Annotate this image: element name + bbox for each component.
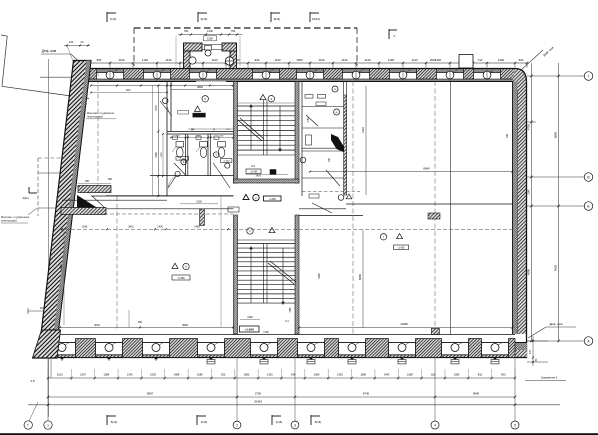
svg-text:3860: 3860	[197, 85, 203, 89]
bottom-left room tag	[172, 263, 178, 268]
svg-text:1140: 1140	[411, 58, 417, 62]
svg-text:+1.650: +1.650	[244, 328, 254, 332]
svg-text:Г: Г	[27, 423, 29, 427]
top wall inner liner strip	[86, 79, 515, 82]
interior bearing wall x343.7-346.6	[344, 95, 347, 195]
svg-text:Деф. шов: Деф. шов	[549, 322, 562, 326]
section flag 7(13)	[106, 12, 108, 22]
svg-text:Деф. шов: Деф. шов	[42, 49, 57, 53]
top dimension line	[88, 62, 527, 64]
svg-text:+1.450: +1.450	[223, 161, 231, 163]
top-right room dim 8940	[310, 171, 513, 173]
svg-text:5(12): 5(12)	[111, 420, 118, 424]
svg-text:1140: 1140	[528, 189, 531, 195]
svg-text:1330: 1330	[337, 373, 343, 377]
svg-text:1029: 1029	[150, 373, 156, 377]
top stair dim marks	[238, 102, 296, 104]
right grid horizontals to bubbles	[527, 75, 584, 77]
svg-text:Монтажн. 1 (царапина: Монтажн. 1 (царапина	[87, 111, 114, 115]
svg-text:1089: 1089	[103, 373, 109, 377]
grid dashed vertical x435	[434, 81, 436, 334]
right column partition walls	[301, 82, 303, 197]
svg-text:-1.450: -1.450	[269, 198, 277, 201]
svg-text:1270: 1270	[155, 105, 158, 111]
right dim line 1	[531, 63, 533, 341]
section flag 6(13)	[197, 12, 199, 22]
corridor boxed label right	[228, 207, 239, 212]
svg-text:1140: 1140	[211, 58, 217, 62]
svg-text:Скружение 2: Скружение 2	[541, 376, 558, 380]
svg-text:810: 810	[431, 373, 436, 377]
svg-text:1057: 1057	[80, 373, 86, 377]
svg-text:9(14): 9(14)	[274, 17, 281, 21]
bottom-right corner dims	[527, 340, 548, 342]
svg-text:1485: 1485	[290, 307, 292, 313]
bathroom band wall y131.5-134	[167, 131, 234, 133]
interior dim line y89.7 with 3860	[171, 89, 233, 91]
bathroom block leader marks	[172, 147, 176, 152]
svg-text:1080: 1080	[454, 373, 460, 377]
svg-text:-1.450: -1.450	[179, 158, 186, 160]
corridor lines left part	[106, 195, 234, 197]
svg-text:-11.450: -11.450	[250, 172, 258, 174]
dashed setback lines left	[38, 157, 64, 159]
left room inner dim ticks	[91, 92, 167, 94]
left edge section flag 3(11)	[29, 192, 37, 194]
svg-text:2061: 2061	[128, 225, 134, 228]
top wall window columns (circles)	[106, 71, 114, 79]
svg-text:3: 3	[294, 423, 296, 427]
svg-text:250: 250	[85, 180, 90, 183]
svg-text:6(13): 6(13)	[201, 17, 208, 21]
svg-text:-1.450: -1.450	[398, 247, 405, 250]
svg-text:6,6°: 6,6°	[31, 379, 36, 383]
small vent boxes below band	[207, 360, 215, 364]
door leaves upper-left block	[160, 101, 172, 116]
svg-text:760: 760	[231, 29, 236, 33]
top-right room dim line x366 (5110)	[365, 86, 367, 196]
grid dashed vertical x353	[352, 81, 354, 334]
svg-text:780: 780	[184, 29, 189, 33]
bottom band left slanted end cap	[33, 330, 61, 358]
svg-text:1300: 1300	[247, 316, 253, 319]
tag near corridor right	[338, 195, 344, 201]
svg-text:1935: 1935	[82, 225, 88, 228]
svg-text:3935: 3935	[59, 264, 63, 270]
svg-text:1140: 1140	[318, 58, 324, 62]
right column fixtures	[318, 95, 326, 99]
witness lines from band to dim row	[47, 358, 49, 426]
stair-corridor wall y179-183	[234, 179, 300, 183]
svg-text:4015: 4015	[94, 323, 100, 327]
svg-text:1360: 1360	[498, 58, 505, 62]
top stair enclosure walls	[234, 82, 238, 184]
svg-text:1180: 1180	[308, 117, 310, 123]
small horizontal mark left	[40, 76, 71, 78]
top stair landing lines	[238, 154, 296, 156]
top stair tags	[260, 95, 266, 100]
right grid bubbles	[584, 72, 593, 81]
svg-text:5110: 5110	[361, 127, 365, 133]
top wall window strips	[97, 69, 124, 73]
lower stair treads	[238, 243, 296, 245]
bottom section flags	[106, 415, 108, 425]
section flag 10(14)	[309, 12, 311, 22]
bottom frame line	[0, 433, 598, 435]
top exterior wall band	[86, 69, 515, 82]
partition wall x167-171	[166, 82, 168, 197]
dashed property boundary top	[134, 27, 357, 29]
svg-text:1443: 1443	[384, 373, 390, 377]
svg-text:1700: 1700	[263, 331, 269, 334]
svg-text:6745: 6745	[363, 392, 370, 396]
top-right rounded corner	[513, 69, 527, 91]
tags bathroom cells	[181, 159, 187, 165]
svg-text:1019: 1019	[57, 373, 63, 377]
solid connector lines left	[38, 172, 67, 174]
right exterior wall	[518, 82, 527, 335]
svg-text:530: 530	[221, 373, 226, 377]
left slanted exterior wall	[41, 61, 91, 335]
svg-text:1488: 1488	[174, 373, 180, 377]
svg-text:900: 900	[108, 178, 113, 181]
vestibule door lines	[202, 44, 222, 46]
lower stair tags	[247, 228, 253, 234]
svg-text:1430: 1430	[255, 175, 261, 178]
svg-text:950: 950	[97, 58, 102, 62]
svg-text:2615: 2615	[430, 58, 437, 62]
svg-text:1080: 1080	[407, 373, 413, 377]
svg-text:1: 1	[47, 423, 49, 427]
svg-text:3100: 3100	[196, 201, 202, 204]
top stair break line	[238, 120, 262, 141]
lower stair stringers	[263, 244, 265, 304]
svg-text:10085: 10085	[400, 322, 408, 326]
bathroom cell dim ticks	[171, 137, 233, 139]
bottom wall hatched piers	[46, 339, 49, 358]
svg-text:3849: 3849	[473, 392, 480, 396]
witness line x152	[151, 85, 153, 196]
interior floor edge line above band	[57, 334, 515, 336]
bottom-right room partition x451 lower	[450, 204, 452, 334]
lower stair enclosure walls	[234, 215, 238, 334]
svg-text:1080: 1080	[360, 373, 366, 377]
svg-text:1190: 1190	[388, 58, 394, 62]
svg-text:8(16): 8(16)	[315, 420, 322, 424]
adjacent site boundary polyline	[1, 35, 89, 99]
dark shaft block	[331, 134, 344, 152]
small box on top of wall near x466	[459, 55, 473, 69]
door leaf lower left corridor	[312, 203, 332, 213]
svg-text:8940: 8940	[423, 166, 430, 170]
svg-text:2700: 2700	[255, 392, 262, 396]
bottom dim row 3	[28, 404, 560, 406]
vestibule side dim marks	[175, 36, 177, 66]
right column door leaves	[326, 170, 340, 186]
top wall outer/inner edge lines	[86, 68, 515, 70]
dashed line y191.5	[302, 191, 360, 193]
vertical mini dims left of bathroom	[162, 134, 164, 176]
svg-text:Монтажн. 1 (украшение: Монтажн. 1 (украшение	[1, 215, 30, 219]
svg-text:1(16): 1(16)	[276, 420, 283, 424]
tags room 6	[202, 96, 208, 102]
right dim line 2	[558, 63, 560, 341]
svg-text:5: 5	[514, 423, 516, 427]
svg-text:1380: 1380	[155, 152, 158, 158]
top wall hatched piers	[86, 69, 97, 80]
svg-text:1100: 1100	[196, 135, 201, 137]
corridor tags	[243, 194, 249, 199]
svg-text:1300: 1300	[207, 37, 213, 41]
svg-text:1080: 1080	[197, 373, 203, 377]
lower stair arrows	[250, 248, 252, 303]
small dim line lower left	[28, 310, 58, 312]
bottom-right dim row 10085	[299, 327, 513, 329]
section flag 9(14)	[270, 12, 272, 22]
hatched pier at x435 bottom	[431, 328, 439, 334]
svg-text:130: 130	[69, 40, 74, 44]
svg-text:1140: 1140	[165, 58, 171, 62]
bottom grid bubbles	[24, 421, 32, 429]
interior dim line y85.5	[91, 85, 233, 87]
svg-text:1140: 1140	[341, 58, 347, 62]
vertical dim line x158	[157, 85, 159, 196]
svg-text:1400: 1400	[157, 225, 163, 228]
bottom-right room tag 7	[380, 234, 386, 240]
svg-text:1050: 1050	[296, 58, 303, 62]
svg-text:810: 810	[478, 373, 483, 377]
svg-text:4(10): 4(10)	[201, 420, 208, 424]
bottom dim row 2	[48, 396, 515, 398]
svg-text:20463: 20463	[254, 399, 262, 403]
svg-text:перегородка): перегородка)	[87, 115, 103, 119]
bottom-left room vertical witness	[220, 196, 222, 327]
svg-text:600: 600	[519, 58, 524, 62]
bathroom cell partitions	[185, 134, 187, 176]
corner expansion joint leader	[521, 50, 543, 70]
svg-text:9420: 9420	[554, 265, 558, 271]
svg-text:1780: 1780	[161, 152, 163, 158]
svg-text:3(11): 3(11)	[22, 196, 28, 200]
svg-text:1110: 1110	[126, 90, 131, 92]
grid line 1 (vertical to bubble 1)	[48, 59, 50, 417]
lower stair upper landing	[238, 239, 296, 241]
svg-text:1343: 1343	[127, 373, 133, 377]
svg-text:Г: Г	[588, 74, 590, 78]
vestibule fixtures	[205, 46, 212, 51]
expansion joint leader bottom right	[528, 327, 546, 338]
top stair treads	[238, 105, 296, 107]
svg-text:1200: 1200	[267, 373, 273, 377]
grid dashed vertical x98	[97, 71, 99, 193]
grid dashed vertical x117	[116, 196, 118, 330]
svg-text:600: 600	[501, 373, 506, 377]
svg-text:1140: 1140	[142, 58, 148, 62]
svg-text:200: 200	[506, 133, 509, 138]
top stair stringers	[263, 100, 265, 155]
svg-text:Л-1: Л-1	[285, 320, 289, 323]
svg-text:6890: 6890	[554, 132, 558, 138]
svg-text:4: 4	[434, 423, 436, 427]
svg-text:1080: 1080	[314, 373, 320, 377]
bottom dim row 1	[48, 377, 515, 379]
svg-text:-0.450: -0.450	[177, 277, 185, 280]
washbasins small rects	[173, 136, 178, 139]
svg-text:540: 540	[291, 373, 296, 377]
corridor column pier	[200, 209, 205, 226]
right column tags	[332, 86, 338, 92]
svg-text:10(14): 10(14)	[312, 17, 320, 21]
svg-text:1140: 1140	[118, 58, 124, 62]
bottom-right room dim x363 (6065)	[362, 230, 364, 328]
svg-text:9987: 9987	[147, 392, 154, 396]
svg-text:1140: 1140	[364, 58, 370, 62]
lower stair break line	[268, 263, 294, 284]
top-right room partition x451	[450, 82, 452, 205]
svg-text:1080: 1080	[244, 373, 250, 377]
svg-text:5465: 5465	[318, 273, 321, 279]
svg-text:710: 710	[478, 58, 483, 62]
vestibule walls	[184, 43, 191, 69]
bottom wall window boxes with column circles	[49, 343, 76, 355]
svg-text:1300: 1300	[207, 29, 213, 33]
svg-text:4716: 4716	[527, 124, 531, 130]
svg-text:6065: 6065	[358, 274, 362, 280]
svg-text:Л-2: Л-2	[251, 164, 256, 168]
ramp structure near left wall	[78, 186, 111, 193]
svg-text:1140: 1140	[274, 58, 280, 62]
corridor top line y196	[91, 195, 234, 197]
corridor lines right part	[346, 203, 513, 205]
corridor dashed y229	[59, 228, 513, 230]
top stair arrows	[250, 106, 252, 150]
svg-text:170: 170	[529, 349, 532, 354]
svg-text:2: 2	[236, 423, 238, 427]
svg-text:920: 920	[255, 58, 260, 62]
bottom-left room dim row	[60, 326, 233, 328]
svg-text:7(13): 7(13)	[110, 17, 117, 21]
vestibule dim row	[178, 34, 242, 36]
svg-text:4500: 4500	[182, 323, 188, 327]
svg-text:960: 960	[138, 321, 143, 324]
svg-text:4590: 4590	[527, 269, 531, 275]
section flag 4	[388, 29, 390, 39]
svg-text:перегородки): перегородки)	[1, 219, 17, 223]
toilets	[176, 142, 184, 148]
hatched block mid-room	[428, 213, 440, 219]
